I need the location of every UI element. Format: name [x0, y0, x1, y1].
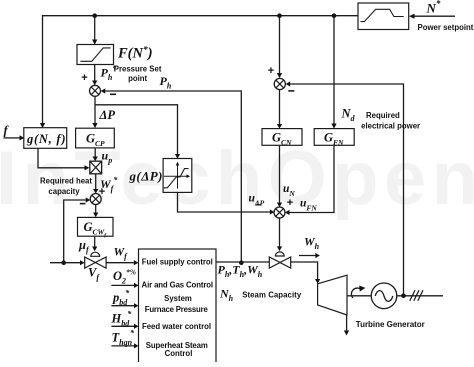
- svg-text:ΔP: ΔP: [99, 108, 116, 122]
- wire turbine exhaust: [346, 315, 348, 331]
- node bus-sum2 junction: [277, 13, 282, 18]
- svg-text:g(N, f): g(N, f): [26, 132, 66, 146]
- svg-text:g(ΔP): g(ΔP): [129, 169, 163, 184]
- svg-text:Turbine Generator: Turbine Generator: [356, 320, 425, 329]
- block g(dP): [163, 159, 192, 193]
- turbine: [318, 275, 347, 315]
- wire sum3 to steam valve: [279, 218, 281, 246]
- wire turbine shaft: [347, 295, 372, 297]
- multiplier block: [90, 161, 102, 174]
- node steam line Ph tap: [239, 260, 244, 265]
- wire g(dP) to sum3: [178, 192, 270, 212]
- wire bus to F(N*): [94, 16, 96, 40]
- wire sum4 to GCWf: [95, 205, 97, 213]
- svg-text:Air and Gas Control: Air and Gas Control: [142, 280, 214, 289]
- wire f input: [4, 137, 20, 139]
- block F(N*): [77, 45, 114, 65]
- block GCWf: [78, 217, 114, 236]
- label u_dP underline: [256, 204, 262, 206]
- summing junction 3: [274, 207, 285, 218]
- summing junction 2: [274, 78, 285, 89]
- summing junction 1: [90, 85, 101, 96]
- wire dP branch to g(dP): [95, 105, 178, 154]
- label minus sum2: [288, 90, 294, 92]
- wire Ph feedback: [105, 91, 241, 262]
- fuel valve V_f: [85, 257, 96, 268]
- wire fuel input: [50, 262, 80, 264]
- svg-text:+: +: [287, 197, 293, 209]
- wire g(N,f) to multiplier: [38, 148, 85, 168]
- fuel valve actuator: [91, 252, 100, 256]
- wire N feedback: [290, 84, 403, 296]
- wire generator to grid: [397, 295, 444, 297]
- svg-text:Required heat: Required heat: [40, 177, 92, 186]
- wire sum1 to GCP with dP label: [94, 96, 96, 123]
- svg-text:point: point: [128, 74, 147, 83]
- svg-text:electrical power: electrical power: [361, 121, 420, 130]
- block GCP: [76, 128, 115, 148]
- steam valve: [269, 257, 280, 268]
- block GCN: [262, 129, 302, 146]
- svg-text:Feed water control: Feed water control: [142, 322, 211, 331]
- node generator feedback tap: [401, 294, 406, 299]
- generator G1: [371, 283, 397, 309]
- node fuel line tap: [61, 260, 66, 265]
- svg-text:F(N*): F(N*): [117, 45, 153, 62]
- svg-text:Fuel supply control: Fuel supply control: [142, 258, 213, 267]
- node bus-F junction: [92, 13, 97, 18]
- block GFN: [314, 129, 354, 146]
- svg-text:Control: Control: [165, 349, 193, 358]
- wire GCN to sum3: [279, 145, 281, 202]
- wire multiplier to sum4: [95, 174, 97, 189]
- wire GFN to sum3: [290, 145, 335, 212]
- wire Wh flow arrow: [299, 255, 315, 257]
- wire p_bd input: [111, 305, 134, 307]
- node bus-GFN junction: [332, 13, 337, 18]
- wire bus to GFN: [333, 16, 335, 124]
- label minus sum1: [110, 93, 116, 95]
- block g(N,f): [24, 128, 67, 149]
- wire GCP to multiplier: [94, 148, 96, 157]
- wire O2 input: [111, 284, 134, 286]
- svg-text:capacity: capacity: [48, 187, 80, 196]
- rotation arrow: [351, 288, 361, 298]
- wire GCWf to fuel valve: [94, 237, 96, 247]
- wire T_hqn input: [111, 345, 134, 347]
- summing junction 4: [90, 194, 101, 205]
- svg-text:+: +: [81, 72, 87, 84]
- svg-text:Steam Capacity: Steam Capacity: [242, 291, 302, 300]
- wire sum2 to GCN: [279, 90, 281, 124]
- wire fuel valve to box: [106, 262, 134, 264]
- svg-text:Pressure Set: Pressure Set: [114, 65, 162, 74]
- svg-text:System: System: [164, 294, 192, 303]
- svg-text:Power setpoint: Power setpoint: [418, 23, 474, 32]
- block power setpoint profile: [358, 3, 409, 30]
- svg-text:Furnace Pressure: Furnace Pressure: [145, 305, 209, 314]
- wire fuel feedback to sum4: [64, 200, 86, 263]
- wire steam line box to valve: [216, 261, 269, 263]
- block boiler control system: [139, 249, 217, 366]
- grid slashes: [410, 290, 415, 301]
- wire top bus: [43, 16, 359, 123]
- wire N* input: [414, 15, 455, 17]
- svg-text:+: +: [268, 65, 274, 77]
- steam valve actuator: [275, 252, 284, 256]
- wire F(N*) to sum1: [94, 65, 96, 81]
- svg-text:Required: Required: [366, 111, 400, 120]
- wire H_bd input: [111, 325, 134, 327]
- label minus sum4: [80, 203, 86, 205]
- wire bus to summing junction 2: [279, 16, 281, 73]
- wire steam valve to turbine: [291, 262, 318, 279]
